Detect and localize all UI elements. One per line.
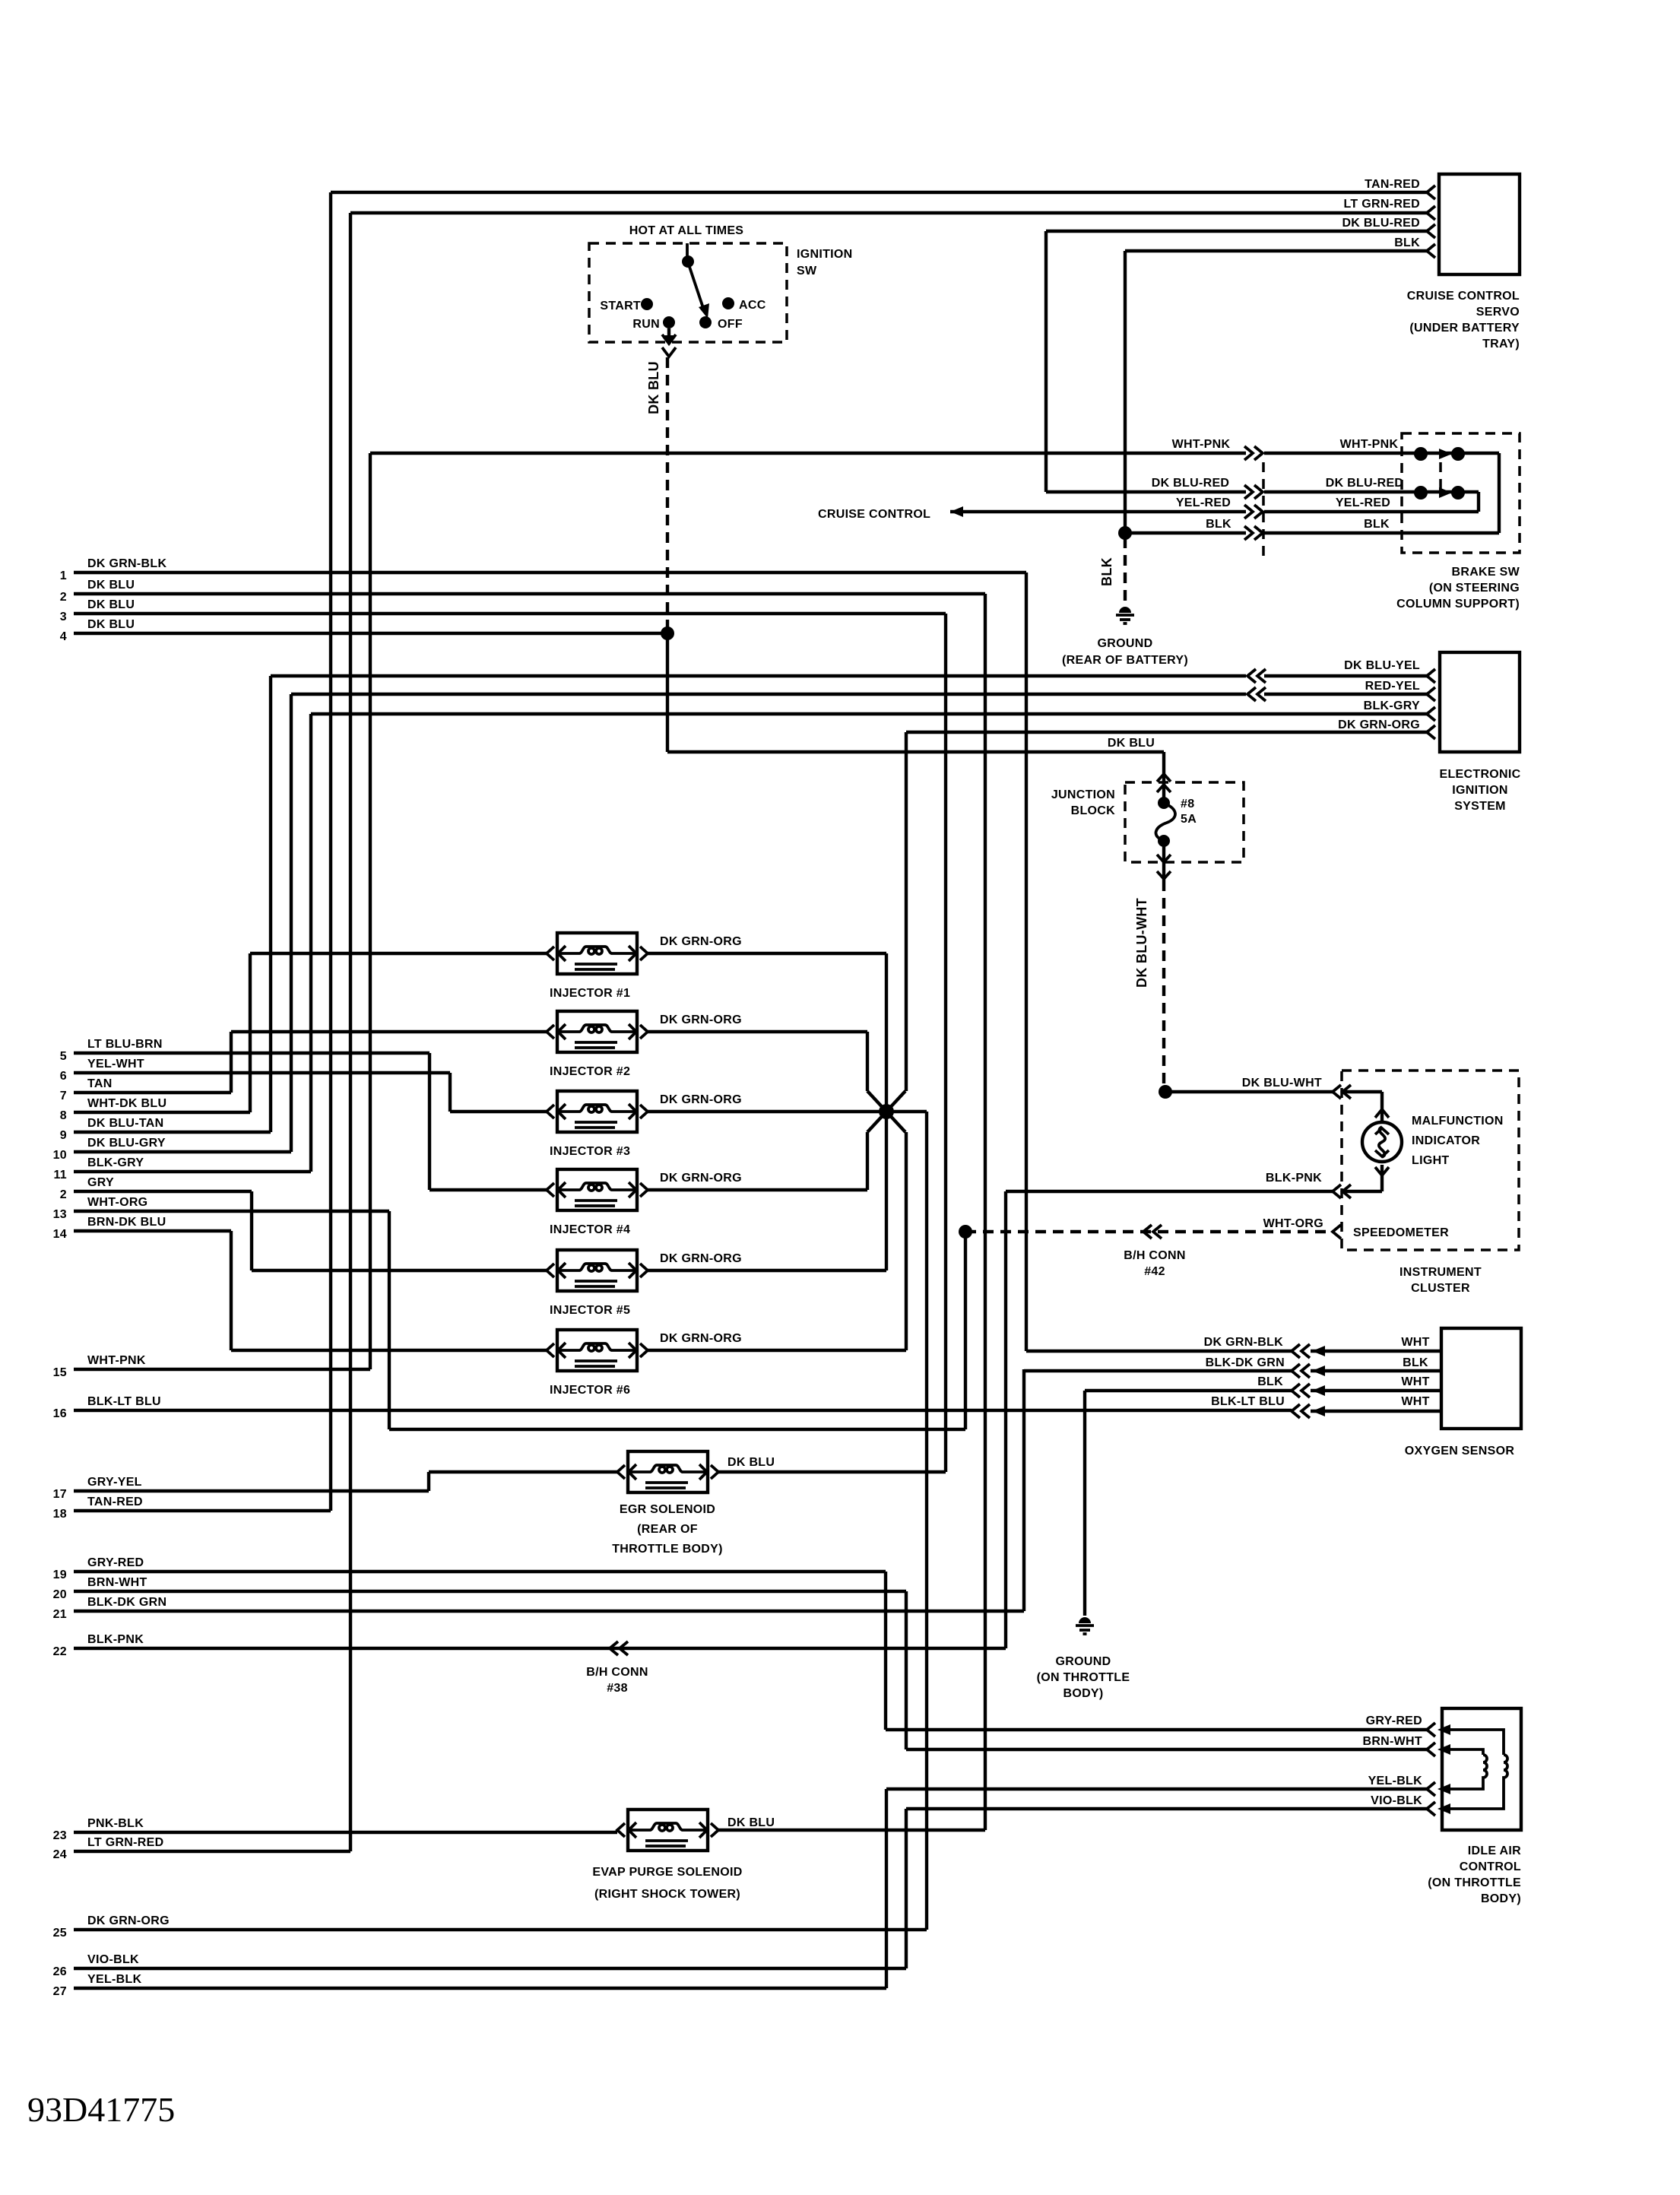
svg-text:DK BLU: DK BLU <box>87 598 135 611</box>
svg-text:8: 8 <box>60 1109 67 1122</box>
svg-text:TAN-RED: TAN-RED <box>1365 178 1420 191</box>
svg-text:BLK: BLK <box>1364 518 1390 531</box>
svg-text:GRY-YEL: GRY-YEL <box>87 1476 142 1489</box>
svg-text:WHT: WHT <box>1401 1336 1429 1349</box>
svg-text:BLK-PNK: BLK-PNK <box>1266 1172 1322 1185</box>
svg-text:VIO-BLK: VIO-BLK <box>87 1953 139 1966</box>
svg-text:YEL-BLK: YEL-BLK <box>1368 1775 1423 1787</box>
svg-text:26: 26 <box>53 1965 67 1978</box>
svg-text:BLK: BLK <box>1403 1356 1428 1369</box>
svg-text:THROTTLE BODY): THROTTLE BODY) <box>612 1543 723 1556</box>
svg-text:LT GRN-RED: LT GRN-RED <box>1344 198 1420 211</box>
svg-text:IGNITION: IGNITION <box>797 248 853 261</box>
svg-text:GRY-RED: GRY-RED <box>87 1556 144 1569</box>
svg-text:RUN: RUN <box>632 318 660 331</box>
svg-text:27: 27 <box>53 1985 67 1998</box>
svg-text:(ON THROTTLE: (ON THROTTLE <box>1428 1876 1521 1889</box>
svg-text:LIGHT: LIGHT <box>1412 1154 1450 1167</box>
svg-text:21: 21 <box>53 1608 67 1621</box>
svg-text:(RIGHT SHOCK TOWER): (RIGHT SHOCK TOWER) <box>594 1888 740 1901</box>
svg-text:LT GRN-RED: LT GRN-RED <box>87 1836 163 1849</box>
svg-text:DK BLU: DK BLU <box>87 618 135 631</box>
svg-text:TAN: TAN <box>87 1077 113 1090</box>
svg-text:DK GRN-ORG: DK GRN-ORG <box>660 1172 742 1185</box>
svg-text:YEL-BLK: YEL-BLK <box>87 1973 142 1986</box>
svg-text:PNK-BLK: PNK-BLK <box>87 1817 144 1830</box>
svg-text:19: 19 <box>53 1569 67 1581</box>
svg-text:BRN-WHT: BRN-WHT <box>1362 1735 1422 1748</box>
svg-text:COLUMN SUPPORT): COLUMN SUPPORT) <box>1396 598 1520 611</box>
svg-text:BLK: BLK <box>1394 236 1420 249</box>
svg-text:BRN-WHT: BRN-WHT <box>87 1576 147 1589</box>
svg-text:17: 17 <box>53 1488 67 1501</box>
svg-text:DK BLU-WHT: DK BLU-WHT <box>1242 1077 1322 1090</box>
svg-text:TRAY): TRAY) <box>1482 338 1520 351</box>
svg-text:#38: #38 <box>607 1682 628 1695</box>
svg-text:WHT-DK BLU: WHT-DK BLU <box>87 1097 166 1110</box>
svg-text:B/H CONN: B/H CONN <box>1124 1249 1186 1262</box>
svg-text:BLK-DK GRN: BLK-DK GRN <box>87 1596 166 1609</box>
svg-text:BLK-GRY: BLK-GRY <box>87 1156 144 1169</box>
svg-text:B/H CONN: B/H CONN <box>586 1666 648 1679</box>
svg-text:DK BLU-YEL: DK BLU-YEL <box>1344 659 1420 672</box>
svg-text:20: 20 <box>53 1588 67 1601</box>
svg-text:DK GRN-ORG: DK GRN-ORG <box>660 935 742 948</box>
svg-text:IGNITION: IGNITION <box>1452 784 1508 797</box>
svg-text:WHT-ORG: WHT-ORG <box>87 1196 147 1209</box>
svg-text:IDLE AIR: IDLE AIR <box>1468 1844 1521 1857</box>
svg-text:18: 18 <box>53 1508 67 1521</box>
svg-text:WHT: WHT <box>1401 1395 1429 1408</box>
svg-text:13: 13 <box>53 1208 67 1221</box>
svg-text:23: 23 <box>53 1829 67 1842</box>
svg-text:BLK-PNK: BLK-PNK <box>87 1633 144 1646</box>
svg-text:DK GRN-ORG: DK GRN-ORG <box>660 1093 742 1106</box>
svg-text:5: 5 <box>60 1050 67 1063</box>
svg-text:GRY-RED: GRY-RED <box>1366 1714 1422 1727</box>
svg-text:EVAP PURGE SOLENOID: EVAP PURGE SOLENOID <box>592 1866 742 1879</box>
svg-text:SYSTEM: SYSTEM <box>1454 800 1506 813</box>
svg-text:DK BLU-RED: DK BLU-RED <box>1342 217 1420 230</box>
svg-text:CONTROL: CONTROL <box>1460 1860 1521 1873</box>
svg-text:(REAR OF: (REAR OF <box>637 1523 698 1536</box>
svg-text:DK BLU: DK BLU <box>646 361 661 414</box>
svg-text:BLK: BLK <box>1099 557 1114 586</box>
svg-text:1: 1 <box>60 569 67 582</box>
svg-text:14: 14 <box>53 1228 67 1241</box>
svg-text:INDICATOR: INDICATOR <box>1412 1134 1480 1147</box>
svg-text:DK GRN-BLK: DK GRN-BLK <box>1204 1336 1283 1349</box>
svg-text:BLOCK: BLOCK <box>1071 804 1116 817</box>
svg-text:WHT-ORG: WHT-ORG <box>1263 1217 1323 1230</box>
svg-text:INJECTOR #1: INJECTOR #1 <box>550 987 630 1000</box>
svg-text:BLK-LT BLU: BLK-LT BLU <box>1211 1395 1285 1408</box>
svg-text:93D41775: 93D41775 <box>27 2090 175 2129</box>
svg-text:START: START <box>600 300 641 312</box>
svg-text:CRUISE CONTROL: CRUISE CONTROL <box>1407 290 1520 303</box>
svg-text:LT BLU-BRN: LT BLU-BRN <box>87 1038 163 1051</box>
svg-text:INSTRUMENT: INSTRUMENT <box>1399 1266 1482 1279</box>
svg-text:EGR SOLENOID: EGR SOLENOID <box>620 1503 715 1516</box>
svg-text:3: 3 <box>60 611 67 623</box>
svg-text:BLK-GRY: BLK-GRY <box>1364 699 1420 712</box>
svg-text:24: 24 <box>53 1848 67 1861</box>
svg-text:5A: 5A <box>1181 813 1197 826</box>
svg-text:DK BLU: DK BLU <box>727 1456 775 1469</box>
svg-text:GROUND: GROUND <box>1056 1655 1111 1668</box>
svg-text:(ON THROTTLE: (ON THROTTLE <box>1037 1671 1130 1684</box>
svg-text:INJECTOR #6: INJECTOR #6 <box>550 1384 630 1397</box>
svg-text:OFF: OFF <box>718 318 743 331</box>
svg-text:BLK-LT BLU: BLK-LT BLU <box>87 1395 161 1408</box>
svg-text:DK BLU-GRY: DK BLU-GRY <box>87 1137 166 1150</box>
svg-text:10: 10 <box>53 1149 67 1162</box>
svg-text:INJECTOR #4: INJECTOR #4 <box>550 1223 630 1236</box>
svg-text:22: 22 <box>53 1645 67 1658</box>
svg-text:YEL-WHT: YEL-WHT <box>87 1058 144 1071</box>
svg-text:SPEEDOMETER: SPEEDOMETER <box>1353 1226 1449 1239</box>
svg-text:INJECTOR #3: INJECTOR #3 <box>550 1145 630 1158</box>
svg-text:BLK-DK GRN: BLK-DK GRN <box>1206 1356 1285 1369</box>
svg-text:DK GRN-ORG: DK GRN-ORG <box>660 1252 742 1265</box>
svg-text:BLK: BLK <box>1257 1375 1283 1388</box>
svg-text:JUNCTION: JUNCTION <box>1051 788 1115 801</box>
svg-text:#42: #42 <box>1144 1265 1165 1278</box>
svg-text:ACC: ACC <box>739 299 766 312</box>
svg-text:RED-YEL: RED-YEL <box>1365 680 1420 693</box>
svg-text:DK GRN-ORG: DK GRN-ORG <box>660 1332 742 1345</box>
svg-text:ELECTRONIC: ELECTRONIC <box>1440 768 1521 781</box>
svg-text:YEL-RED: YEL-RED <box>1176 496 1231 509</box>
svg-text:VIO-BLK: VIO-BLK <box>1371 1794 1422 1807</box>
svg-text:(ON STEERING: (ON STEERING <box>1429 582 1520 595</box>
svg-text:DK BLU: DK BLU <box>727 1816 775 1829</box>
svg-text:INJECTOR #2: INJECTOR #2 <box>550 1065 630 1078</box>
svg-text:DK BLU: DK BLU <box>87 579 135 592</box>
svg-text:WHT-PNK: WHT-PNK <box>1172 438 1231 451</box>
svg-text:CLUSTER: CLUSTER <box>1411 1282 1470 1295</box>
svg-text:INJECTOR #5: INJECTOR #5 <box>550 1304 630 1317</box>
svg-text:DK GRN-ORG: DK GRN-ORG <box>660 1013 742 1026</box>
svg-text:CRUISE CONTROL: CRUISE CONTROL <box>818 508 930 521</box>
svg-text:7: 7 <box>60 1090 67 1102</box>
svg-text:BODY): BODY) <box>1063 1687 1103 1700</box>
svg-text:BRN-DK BLU: BRN-DK BLU <box>87 1216 166 1229</box>
svg-text:DK GRN-ORG: DK GRN-ORG <box>87 1914 170 1927</box>
svg-text:DK BLU-RED: DK BLU-RED <box>1152 477 1230 490</box>
svg-text:2: 2 <box>60 1188 67 1201</box>
svg-text:DK BLU: DK BLU <box>1108 737 1155 750</box>
svg-text:BRAKE SW: BRAKE SW <box>1451 566 1520 579</box>
svg-text:9: 9 <box>60 1129 67 1142</box>
svg-text:6: 6 <box>60 1070 67 1083</box>
svg-text:15: 15 <box>53 1366 67 1379</box>
svg-text:11: 11 <box>53 1169 67 1182</box>
svg-text:GROUND: GROUND <box>1098 637 1153 650</box>
svg-text:SERVO: SERVO <box>1476 306 1520 319</box>
svg-text:(REAR OF BATTERY): (REAR OF BATTERY) <box>1062 654 1188 667</box>
svg-text:(UNDER BATTERY: (UNDER BATTERY <box>1409 322 1520 335</box>
svg-text:DK BLU-WHT: DK BLU-WHT <box>1134 898 1149 988</box>
svg-text:#8: #8 <box>1181 798 1194 810</box>
svg-text:DK GRN-ORG: DK GRN-ORG <box>1338 718 1420 731</box>
svg-text:DK BLU-RED: DK BLU-RED <box>1326 477 1404 490</box>
svg-text:DK GRN-BLK: DK GRN-BLK <box>87 557 166 570</box>
svg-text:16: 16 <box>53 1407 67 1420</box>
svg-text:DK BLU-TAN: DK BLU-TAN <box>87 1117 163 1130</box>
svg-text:BODY): BODY) <box>1481 1892 1521 1905</box>
svg-text:MALFUNCTION: MALFUNCTION <box>1412 1115 1504 1128</box>
svg-text:HOT AT ALL TIMES: HOT AT ALL TIMES <box>629 224 744 237</box>
svg-text:YEL-RED: YEL-RED <box>1336 496 1390 509</box>
svg-text:25: 25 <box>53 1927 67 1940</box>
svg-text:WHT-PNK: WHT-PNK <box>1340 438 1399 451</box>
svg-text:TAN-RED: TAN-RED <box>87 1496 143 1508</box>
svg-text:BLK: BLK <box>1206 518 1231 531</box>
svg-text:2: 2 <box>60 591 67 604</box>
svg-text:WHT: WHT <box>1401 1375 1429 1388</box>
svg-text:GRY: GRY <box>87 1176 114 1189</box>
svg-text:OXYGEN SENSOR: OXYGEN SENSOR <box>1405 1445 1515 1458</box>
svg-text:4: 4 <box>60 630 67 643</box>
svg-text:SW: SW <box>797 265 817 278</box>
svg-text:WHT-PNK: WHT-PNK <box>87 1354 146 1367</box>
